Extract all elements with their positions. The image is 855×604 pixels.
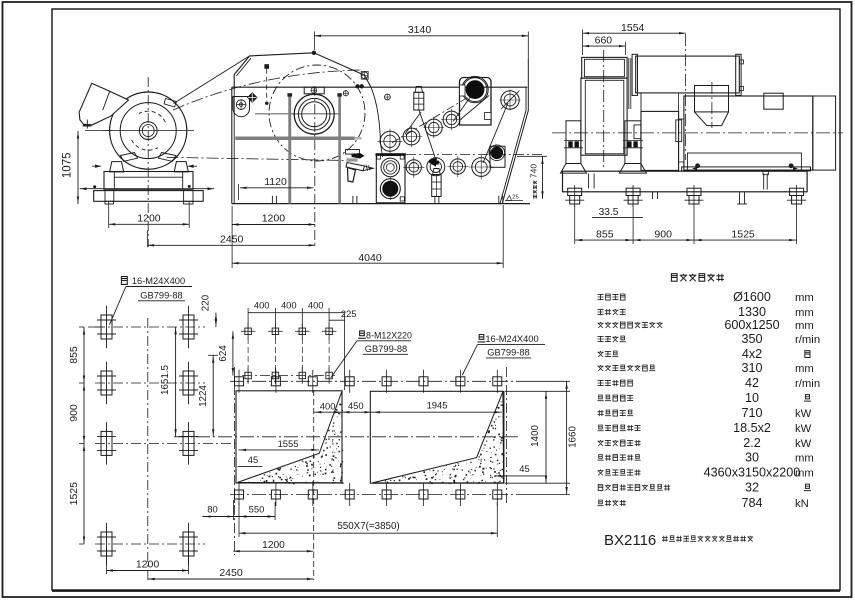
svg-text:10: 10 [745, 391, 759, 405]
table row 11 [598, 440, 641, 446]
tower pedestal right [625, 121, 641, 164]
svg-text:1945: 1945 [427, 400, 448, 411]
svg-text:32: 32 [745, 481, 759, 495]
dimension chain 855 900 1525 vertical [83, 327, 85, 544]
jack support left [652, 192, 654, 199]
svg-text:1200: 1200 [136, 559, 160, 571]
svg-text:1200: 1200 [137, 212, 161, 224]
svg-text:mm: mm [795, 320, 814, 332]
svg-text:GB799-88: GB799-88 [365, 344, 407, 354]
svg-text:4040: 4040 [358, 252, 382, 264]
drum pitch dash-dot circle [269, 65, 365, 161]
wedge roller [427, 158, 445, 176]
drum flange right [736, 54, 741, 95]
svg-text:45: 45 [519, 463, 529, 474]
feed roller idler top right [501, 91, 519, 109]
svg-text:855: 855 [68, 346, 80, 364]
svg-text:mm: mm [795, 307, 814, 319]
svg-text:mm: mm [795, 363, 814, 375]
motor slide-rail frame [104, 172, 193, 190]
roller housing left stack [376, 154, 405, 203]
small bolts second row [245, 372, 252, 379]
chipper anchor bolts top row 16-M24 [235, 377, 244, 386]
svg-text:16-M24X400: 16-M24X400 [485, 334, 538, 344]
svg-text:450: 450 [348, 400, 364, 411]
anchor label 16-M24X400 left [121, 277, 127, 285]
fastener at chute [385, 94, 391, 100]
black square marker with dashed drop [264, 64, 269, 69]
motor rail dark [682, 167, 811, 171]
dimension 660 [625, 42, 627, 55]
rail adjusting rods with arrows [80, 188, 214, 190]
svg-text:900: 900 [654, 229, 672, 241]
svg-text:1200: 1200 [262, 213, 286, 225]
hydraulic cylinder upper [414, 92, 424, 110]
motor base plate [94, 191, 204, 202]
dimension 1200 grid [106, 548, 108, 574]
dimension 4040 [502, 205, 504, 268]
left bearing bracket [233, 97, 250, 117]
svg-text:225: 225 [341, 308, 357, 319]
svg-text:80: 80 [207, 504, 217, 515]
dimension 1200 machine [231, 206, 233, 268]
left grid center lines [147, 318, 149, 580]
svg-text:kW: kW [795, 423, 812, 435]
table row 14 [598, 485, 670, 491]
feed level dash line [406, 154, 545, 156]
svg-text:mm: mm [795, 453, 814, 465]
svg-text:2.2: 2.2 [743, 436, 761, 450]
dimension 33.5 [592, 217, 643, 219]
diamond fastener [248, 93, 257, 102]
pit dim 1555 [239, 449, 319, 451]
dark roller bottom [380, 179, 400, 199]
main motor body [684, 96, 813, 170]
belt line lower [167, 157, 349, 160]
bearing crosshair [255, 113, 341, 115]
dimension 220 [215, 313, 217, 327]
svg-text:400: 400 [308, 299, 324, 310]
svg-text:kW: kW [795, 438, 812, 450]
motor terminal box [764, 93, 783, 109]
svg-text:710: 710 [741, 406, 762, 420]
svg-text:1525: 1525 [68, 482, 80, 506]
coupling plate [679, 119, 684, 162]
dimension 1224 [212, 355, 214, 437]
ringed roller mid [381, 158, 400, 177]
chute curved wall [371, 87, 383, 157]
svg-text:r/min: r/min [795, 378, 820, 390]
front gear housing [641, 111, 679, 170]
dimension 1200 motor [108, 202, 110, 228]
svg-text:400: 400 [281, 299, 297, 310]
table row 9 [598, 410, 634, 416]
tower center line [603, 50, 605, 168]
water gun bracket [346, 150, 360, 155]
drum support lines [640, 93, 642, 112]
dimension 2450 plan [148, 578, 313, 580]
chipper top bolt row dash line [230, 380, 520, 382]
dimension 3140 [313, 32, 315, 51]
end view center line horizontal [552, 132, 843, 134]
drum cylinder [636, 56, 740, 93]
svg-text:550: 550 [249, 504, 265, 515]
table row 6 [598, 365, 656, 371]
table row 1 [598, 294, 626, 300]
svg-text:1555: 1555 [278, 438, 299, 449]
table row 4 [598, 336, 626, 342]
svg-text:16-M24X400: 16-M24X400 [132, 276, 185, 286]
svg-text:1554: 1554 [621, 22, 645, 34]
gray cross bar [235, 137, 354, 141]
svg-text:1224: 1224 [198, 385, 209, 407]
motor mounting tabs [164, 99, 177, 108]
upper feed roller drive (dark) [460, 78, 492, 126]
svg-text:30: 30 [745, 451, 759, 465]
bolt on roof right [361, 72, 368, 79]
svg-text:900: 900 [68, 404, 80, 422]
machine left edge [231, 87, 233, 203]
svg-text:400: 400 [254, 299, 270, 310]
svg-text:660: 660 [595, 35, 613, 47]
svg-text:GB799-88: GB799-88 [487, 348, 529, 358]
dark roller right [490, 146, 505, 167]
svg-text:600x1250: 600x1250 [724, 318, 779, 332]
linkage struts [419, 110, 437, 163]
dimension 740 vertical [517, 155, 547, 157]
dimension 1651.5 [175, 327, 177, 437]
dimension 1120 [238, 184, 240, 200]
motor feet [110, 162, 124, 172]
motor M1 body circles [110, 92, 187, 169]
dimension 1400 [505, 390, 570, 392]
svg-text:1651.5: 1651.5 [160, 364, 171, 395]
hydraulic cylinder lower [432, 175, 441, 197]
pit 1 outline [236, 391, 342, 483]
pit 2 outline [370, 391, 504, 483]
svg-text:45: 45 [248, 454, 258, 465]
svg-text:33.5: 33.5 [599, 207, 619, 218]
machine body top line [232, 86, 528, 88]
oil pan [687, 153, 801, 170]
svg-text:GB799-88: GB799-88 [140, 291, 182, 301]
svg-text:kW: kW [795, 408, 812, 420]
belt guard edge [628, 58, 630, 109]
svg-text:350: 350 [741, 332, 762, 346]
svg-text:4360x3150x2200: 4360x3150x2200 [704, 466, 801, 480]
belt tower body [581, 78, 627, 155]
svg-text:BX2116: BX2116 [604, 532, 656, 549]
dimension 1075 [77, 131, 79, 204]
motor M1 crosshair [103, 130, 194, 132]
pit dims 400 450 1945 [314, 411, 502, 413]
anchor marks on rails [95, 165, 101, 168]
drum flange left [632, 54, 637, 95]
chipper anchor bolts bottom row 16-M24 [230, 494, 520, 496]
svg-text:855: 855 [596, 229, 614, 241]
svg-text:740: 740 [529, 164, 539, 178]
anchor label 8-M12X220 [358, 331, 366, 338]
belt tower cap [582, 57, 627, 78]
svg-text:4x2: 4x2 [742, 347, 762, 361]
svg-text:25: 25 [512, 195, 518, 201]
main bearing B1 [294, 94, 334, 134]
chipper anchor bolts small 8-M12 top row [245, 328, 252, 335]
fastener cross small [343, 91, 348, 96]
table row 5 [598, 351, 619, 357]
motor base pads [105, 201, 113, 204]
motor M1 inner dashed arcs [139, 111, 165, 122]
hopper [695, 86, 729, 112]
chipper housing roof [234, 53, 371, 87]
feed rollers diagonal row [380, 131, 400, 151]
svg-text:mm: mm [795, 292, 814, 304]
pit bottom dim 550 [239, 516, 275, 518]
svg-text:1200: 1200 [262, 540, 285, 551]
dimension 855 900 1525 [574, 206, 576, 244]
svg-text:1075: 1075 [62, 153, 74, 179]
double dot fasteners on top line [355, 84, 359, 88]
svg-text:400: 400 [320, 401, 336, 412]
table row 15 [598, 500, 626, 506]
svg-text:624: 624 [218, 345, 229, 362]
table row 8 [598, 395, 634, 401]
table row 12 [598, 455, 641, 461]
pit 1 concrete wedge [238, 391, 342, 483]
motor end cap [813, 96, 836, 170]
table row 2 [598, 309, 626, 315]
drum center line [685, 34, 687, 160]
roof apex dot [312, 51, 316, 55]
svg-text:2450: 2450 [219, 567, 243, 579]
svg-text:3140: 3140 [408, 24, 432, 36]
svg-text:mm: mm [795, 468, 814, 480]
table title [671, 274, 724, 282]
mid jack support [739, 192, 741, 204]
dimension 2450 top view [147, 230, 149, 247]
svg-text:310: 310 [741, 361, 762, 375]
pit bottom dim 80 [203, 516, 240, 518]
main bearing housing cap [304, 87, 324, 94]
table row 7 [598, 380, 633, 386]
svg-text:1330: 1330 [738, 305, 766, 319]
svg-text:18.5x2: 18.5x2 [733, 421, 771, 435]
gray support legs [288, 94, 291, 203]
machine bottom line [232, 203, 530, 205]
svg-text:1525: 1525 [731, 229, 755, 241]
base feet and anchor bolts [568, 188, 582, 195]
tower pedestal left [566, 121, 581, 164]
anchor label 16-M24X400 right [478, 335, 486, 342]
end view base frame [563, 171, 808, 192]
svg-text:r/min: r/min [795, 334, 820, 346]
pit 2 concrete wedge [372, 392, 503, 483]
svg-text:Ø1600: Ø1600 [733, 290, 771, 304]
svg-text:42: 42 [745, 376, 759, 390]
svg-text:1400: 1400 [530, 425, 541, 447]
pit 1 concrete speckles [248, 404, 343, 485]
motor anchor bolts 16-M24X400 grid [101, 315, 112, 339]
belt line upper [174, 56, 250, 104]
right wall of feed chute [527, 59, 529, 111]
table row 10 [598, 425, 641, 431]
motor inlet funnel [79, 83, 128, 125]
dimension 400x3 and 225 [248, 312, 345, 314]
svg-text:8-M12X220: 8-M12X220 [366, 330, 412, 340]
svg-text:kN: kN [795, 498, 809, 510]
dimension 1660 [520, 380, 570, 382]
pit column center lines [233, 367, 235, 505]
svg-text:550X7(=3850): 550X7(=3850) [337, 521, 399, 532]
pit 2 concrete speckles [385, 401, 504, 484]
svg-text:1660: 1660 [568, 426, 579, 448]
dimension 624 [232, 331, 234, 375]
table row 3 [598, 322, 663, 328]
machine feet ticks [271, 196, 273, 204]
svg-text:1120: 1120 [264, 176, 287, 188]
svg-text:784: 784 [741, 496, 762, 510]
table row 13 [598, 470, 641, 476]
lower feed rollers row [406, 160, 421, 175]
svg-text:220: 220 [201, 294, 212, 311]
dimension 1554 [582, 30, 584, 56]
pit center line horizontal [174, 436, 519, 438]
pit bottom dim 550X7 [239, 532, 497, 534]
pit bottom dim 1200 [233, 505, 235, 555]
